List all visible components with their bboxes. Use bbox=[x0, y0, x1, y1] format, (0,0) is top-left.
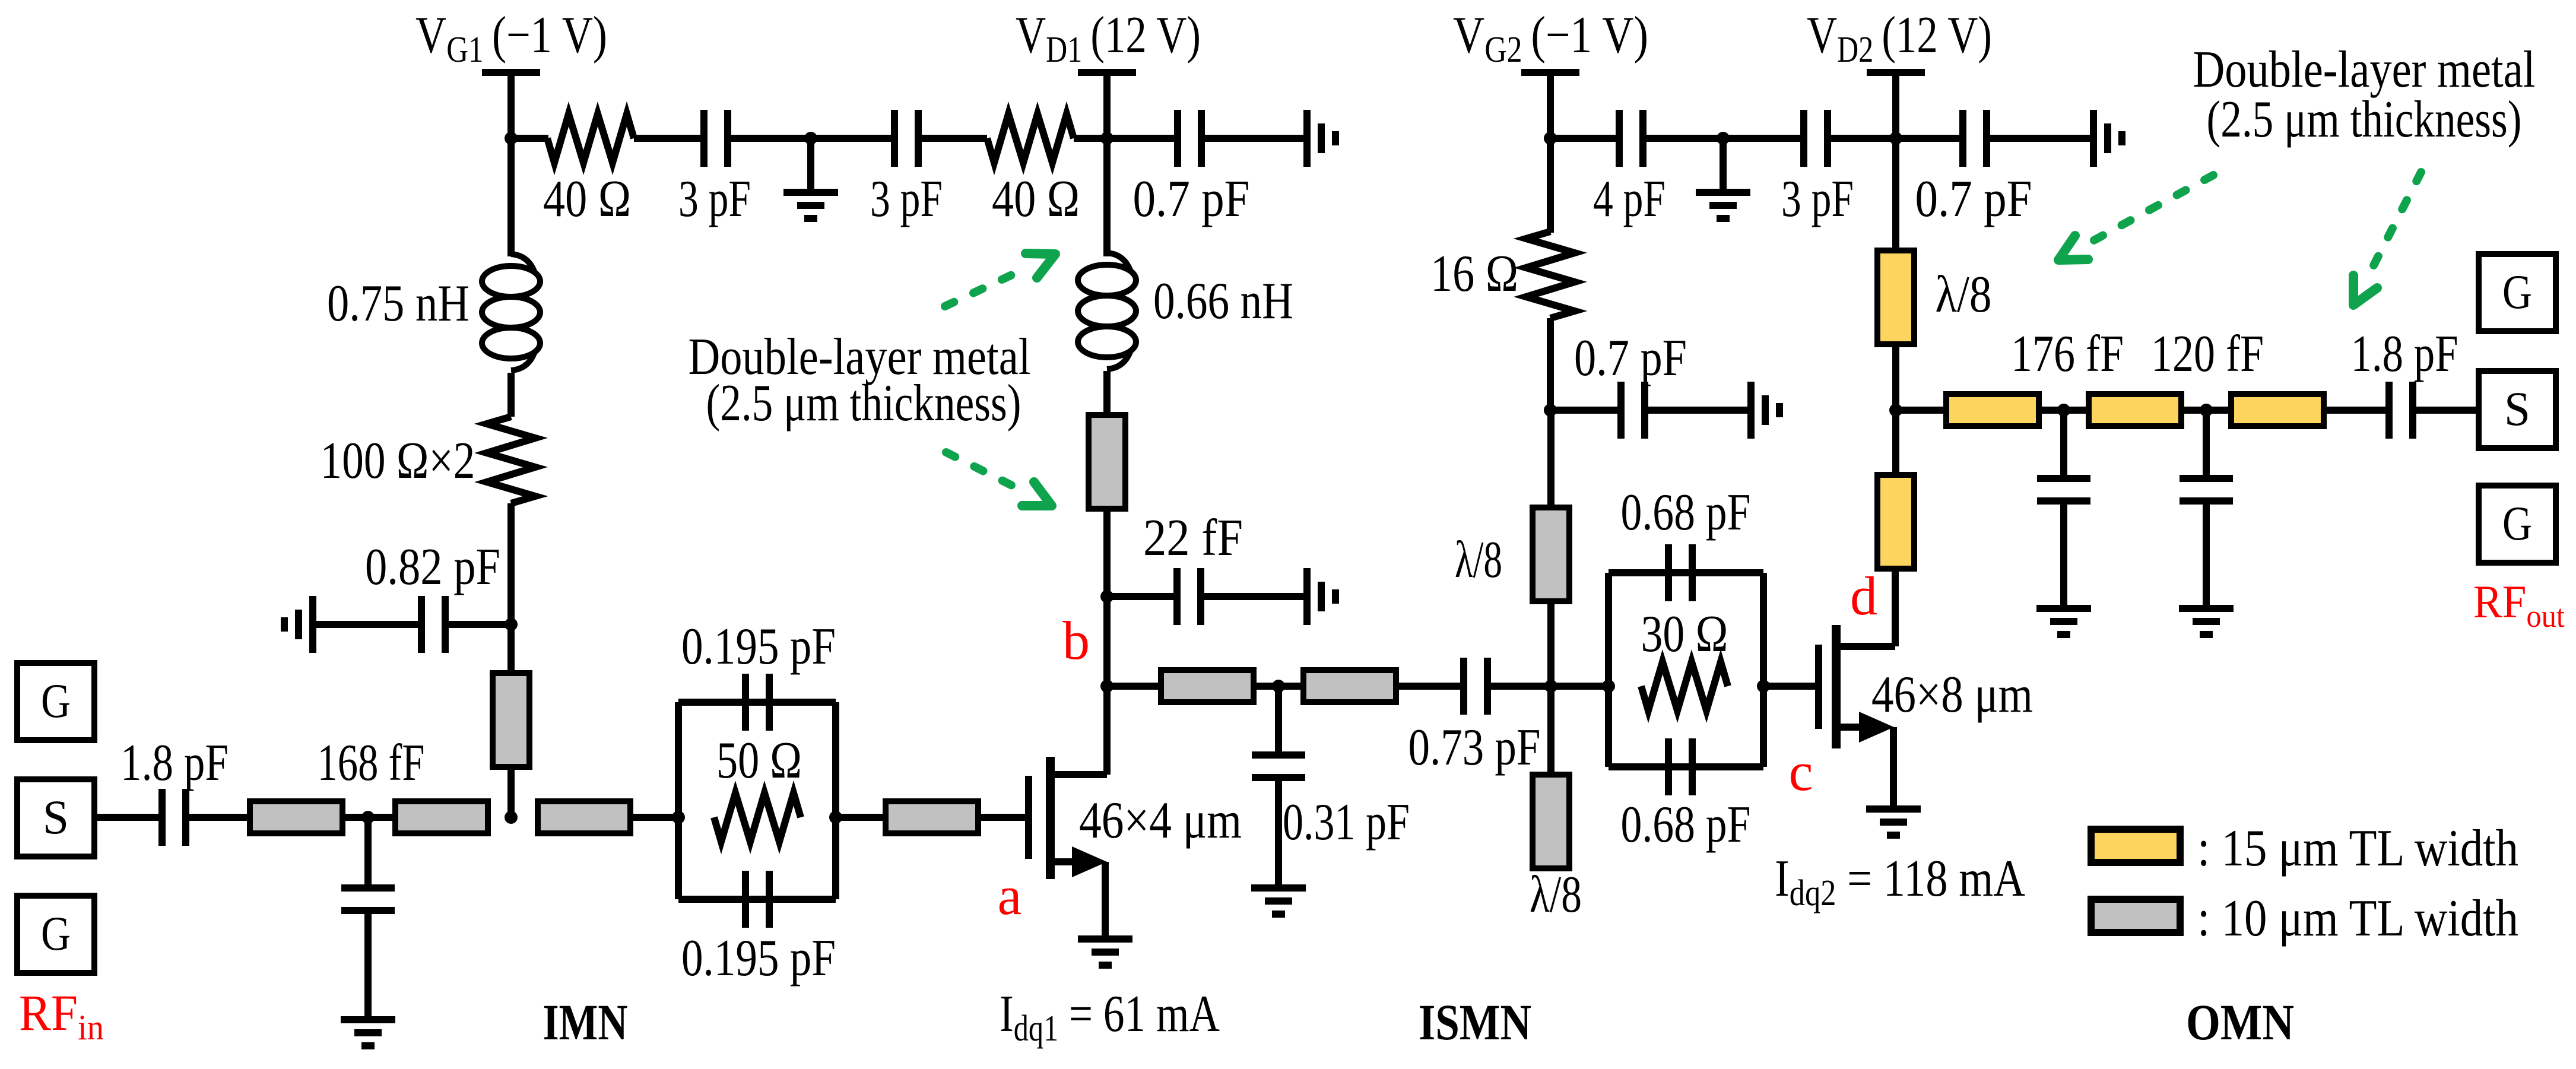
node 0.82 pF junction bbox=[505, 618, 518, 631]
ground (Q1 source) bbox=[1078, 939, 1132, 965]
svg-text:0.66 nH: 0.66 nH bbox=[1153, 272, 1293, 330]
svg-text:100 Ω×2: 100 Ω×2 bbox=[321, 432, 475, 490]
transmission line (15 um, VD2 lower) bbox=[1877, 475, 1914, 569]
pad G (output bottom) bbox=[2479, 486, 2556, 563]
node 120 fF junction bbox=[2200, 404, 2213, 417]
wire bbox=[2324, 407, 2389, 414]
RF short termination (22 fF) bbox=[1307, 568, 1335, 625]
transmission line TL (input 2) bbox=[395, 801, 488, 833]
wire bbox=[1547, 410, 1555, 509]
svg-text:: 15 μm TL width: : 15 μm TL width bbox=[2197, 820, 2518, 877]
wire VD2 rail bbox=[1892, 138, 1899, 250]
wire RC2 left side bbox=[1605, 573, 1612, 767]
svg-text:λ/8: λ/8 bbox=[1936, 266, 1992, 323]
inductor 0.75 nH bbox=[482, 254, 540, 370]
wire RC2 top bbox=[1609, 569, 1763, 576]
wire bbox=[507, 767, 515, 817]
wire bbox=[1547, 601, 1555, 686]
RF short termination (VD1 bypass) bbox=[1307, 110, 1335, 167]
capacitor 0.68 pF (top) bbox=[1668, 544, 1692, 601]
capacitor 22 fF bbox=[1177, 568, 1201, 625]
wire shunt bbox=[2203, 410, 2210, 475]
wire bbox=[1547, 686, 1555, 775]
wire bbox=[1550, 135, 1619, 142]
ground (120 fF) bbox=[2179, 608, 2234, 635]
svg-text:0.195 pF: 0.195 pF bbox=[681, 930, 836, 987]
wire bbox=[2181, 407, 2231, 414]
transistor Q1 (46x4 um FET) bbox=[1029, 757, 1107, 937]
svg-text:0.68 pF: 0.68 pF bbox=[1621, 796, 1751, 854]
transistor Q2 (46x8 um FET) bbox=[1819, 625, 1895, 807]
wire RC block left side bbox=[675, 702, 682, 899]
wire bbox=[1892, 410, 1899, 475]
wire bbox=[1103, 509, 1111, 597]
svg-text:0.195 pF: 0.195 pF bbox=[681, 618, 836, 675]
wire bbox=[186, 814, 250, 821]
svg-text:16 Ω: 16 Ω bbox=[1430, 245, 1518, 303]
wire RC block right side bbox=[832, 702, 839, 899]
node VG1 rail top bbox=[505, 132, 518, 145]
wire bbox=[1103, 597, 1111, 686]
capacitor 0.73 pF bbox=[1464, 658, 1487, 715]
node bias junction 1 bbox=[804, 132, 817, 145]
svg-text:λ/8: λ/8 bbox=[1530, 866, 1582, 924]
wire bbox=[728, 135, 894, 142]
capacitor 0.31 pF (shunt) bbox=[1252, 755, 1305, 778]
wire shunt bbox=[1275, 686, 1282, 755]
capacitor 0.195 pF (top) bbox=[745, 674, 769, 731]
wire bbox=[1107, 135, 1178, 142]
svg-text:d: d bbox=[1850, 566, 1877, 626]
ground (176 fF) bbox=[2036, 608, 2091, 635]
svg-text:G: G bbox=[41, 674, 71, 728]
svg-text:VG2 (−1 V): VG2 (−1 V) bbox=[1453, 7, 1648, 70]
transmission line (10 um, IMN shunt) bbox=[493, 673, 529, 767]
wire bbox=[1487, 683, 1551, 690]
capacitor 0.68 pF (bottom) bbox=[1668, 738, 1692, 795]
power supply bar VD2 bbox=[1867, 69, 1925, 76]
node b junction bbox=[1100, 680, 1113, 693]
wire ground stub bbox=[807, 138, 814, 189]
svg-text:176 fF: 176 fF bbox=[2011, 325, 2124, 383]
svg-text:S: S bbox=[2504, 382, 2530, 436]
wire bbox=[364, 911, 372, 1019]
resistor 16 &#937; bbox=[1526, 231, 1575, 318]
wire bbox=[1896, 135, 1963, 142]
capacitor 3 pF (second stage) bbox=[1804, 110, 1828, 167]
wire VD2 feed bbox=[1892, 76, 1899, 138]
transmission line TL (ISMN 2) bbox=[1303, 670, 1396, 702]
svg-text:46×8 μm: 46×8 μm bbox=[1871, 666, 2033, 724]
transmission line TL (to Q1 gate) bbox=[886, 801, 978, 833]
wire bbox=[1074, 135, 1107, 142]
wire bbox=[1201, 135, 1303, 142]
svg-text:1.8 pF: 1.8 pF bbox=[120, 734, 229, 792]
wire VG2 feed bbox=[1547, 76, 1554, 138]
svg-text:G: G bbox=[2502, 265, 2532, 319]
wire VG2 rail upper bbox=[1547, 138, 1554, 233]
wire VG1 feed bbox=[507, 76, 515, 138]
wire bbox=[1892, 344, 1899, 410]
wire ground stub bbox=[1720, 138, 1727, 189]
capacitor 0.7 pF (VD2 bypass) bbox=[1963, 110, 1987, 167]
svg-text:a: a bbox=[998, 865, 1022, 926]
svg-text:40 Ω: 40 Ω bbox=[543, 170, 631, 228]
svg-text:3 pF: 3 pF bbox=[678, 170, 751, 228]
wire bbox=[2203, 501, 2210, 607]
pad G (output top) bbox=[2479, 254, 2556, 331]
capacitor 168 fF (shunt) bbox=[341, 888, 395, 911]
node 22 fF junction bbox=[1100, 590, 1113, 603]
wire bbox=[1828, 135, 1896, 142]
capacitor 176 fF (shunt) bbox=[2037, 478, 2090, 501]
wire bbox=[1275, 778, 1282, 887]
capacitor 4 pF bbox=[1619, 110, 1643, 167]
wire bbox=[342, 814, 395, 821]
transmission line (15 um, OMN 2) bbox=[2089, 394, 2181, 426]
ground (168 fF) bbox=[341, 1020, 395, 1046]
svg-text:: 10 μm TL width: : 10 μm TL width bbox=[2197, 890, 2518, 947]
svg-text:4 pF: 4 pF bbox=[1593, 170, 1665, 228]
transmission line TL (input 1) bbox=[250, 801, 342, 833]
node VG1 rail / signal row bbox=[505, 811, 518, 824]
wire bbox=[1896, 407, 1946, 414]
node RC block 2 right bbox=[1757, 680, 1770, 693]
node ISMN cross bbox=[1544, 680, 1557, 693]
wire bbox=[94, 814, 162, 821]
annotation arrow to VD1 TL bbox=[946, 452, 1052, 506]
wire bbox=[1107, 593, 1177, 600]
transmission line lambda/8 (upper stub) bbox=[1533, 507, 1569, 601]
svg-text:λ/8: λ/8 bbox=[1455, 531, 1502, 589]
wire VG2 rail bbox=[1547, 318, 1554, 410]
wire RC2 bottom bbox=[1609, 763, 1763, 770]
resistor 40 &#937; (VG1 branch) bbox=[547, 114, 634, 163]
svg-text:0.7 pF: 0.7 pF bbox=[1915, 170, 2032, 228]
node 168 fF junction bbox=[361, 811, 375, 824]
wire bbox=[1645, 407, 1747, 414]
node 176 fF junction bbox=[2057, 404, 2070, 417]
capacitor 1.8 pF (output) bbox=[2389, 382, 2413, 439]
ground (Q2 source) bbox=[1866, 809, 1921, 835]
wire bbox=[2039, 407, 2089, 414]
inductor 0.66 nH bbox=[1078, 253, 1136, 369]
svg-text:0.75 nH: 0.75 nH bbox=[327, 275, 469, 332]
svg-text:IMN: IMN bbox=[543, 994, 628, 1051]
transmission line lambda/8 (15 um, VD2 upper) bbox=[1877, 250, 1914, 344]
wire bbox=[1551, 683, 1609, 690]
svg-text:0.68 pF: 0.68 pF bbox=[1621, 484, 1751, 541]
svg-text:46×4 μm: 46×4 μm bbox=[1079, 792, 1242, 849]
capacitor 0.195 pF (bottom) bbox=[745, 871, 769, 928]
svg-text:G: G bbox=[2502, 496, 2532, 550]
pad S (output) bbox=[2479, 371, 2556, 448]
svg-text:0.73 pF: 0.73 pF bbox=[1408, 719, 1541, 776]
capacitor 1.8 pF (input) bbox=[162, 789, 186, 846]
ground (0.31 pF) bbox=[1251, 888, 1306, 914]
svg-text:0.7 pF: 0.7 pF bbox=[1574, 329, 1687, 387]
ground (bias row 1) bbox=[783, 192, 838, 218]
transmission line (10 um, VD1 feed) bbox=[1089, 415, 1125, 509]
wire bbox=[1763, 683, 1815, 690]
wire Q2 drain rail bbox=[1892, 569, 1899, 646]
svg-text:VD1 (12 V): VD1 (12 V) bbox=[1016, 7, 1201, 70]
capacitor 0.7 pF (VD1 bypass) bbox=[1178, 110, 1201, 167]
svg-text:OMN: OMN bbox=[2186, 994, 2294, 1051]
svg-text:Double-layer metal: Double-layer metal bbox=[2193, 41, 2536, 99]
capacitor 3 pF (first) bbox=[704, 110, 728, 167]
wire shunt bbox=[2060, 410, 2067, 475]
pad G (input top) bbox=[17, 663, 94, 740]
svg-text:0.7 pF: 0.7 pF bbox=[1133, 170, 1250, 228]
wire bbox=[1987, 135, 2093, 142]
svg-text:40 Ω: 40 Ω bbox=[992, 170, 1080, 228]
pad G (input bottom) bbox=[17, 896, 94, 973]
wire shunt bbox=[364, 817, 372, 888]
wire bbox=[978, 814, 1025, 821]
resistor 40 &#937; (VD1 branch) bbox=[987, 114, 1074, 163]
node VG2 0.7 pF junction bbox=[1544, 404, 1557, 417]
annotation arrow to VD2 TL bbox=[2058, 175, 2213, 260]
svg-text:3 pF: 3 pF bbox=[870, 170, 943, 228]
wire bbox=[2060, 501, 2067, 607]
svg-text:(2.5 μm thickness): (2.5 μm thickness) bbox=[706, 375, 1021, 432]
node VG2 rail top bbox=[1544, 132, 1557, 145]
svg-text:1.8 pF: 1.8 pF bbox=[2351, 325, 2458, 383]
node RC block 2 left bbox=[1602, 680, 1615, 693]
svg-text:c: c bbox=[1789, 741, 1813, 802]
wire VG1 rail bbox=[507, 138, 515, 256]
svg-text:VD2 (12 V): VD2 (12 V) bbox=[1807, 7, 1992, 70]
wire bbox=[630, 814, 678, 821]
wire bbox=[1107, 683, 1161, 690]
wire bbox=[1103, 371, 1111, 415]
svg-text:30 Ω: 30 Ω bbox=[1641, 605, 1728, 663]
svg-text:ISMN: ISMN bbox=[1419, 994, 1531, 1051]
node VD2 rail top bbox=[1889, 132, 1902, 145]
wire bbox=[836, 814, 886, 821]
transmission line (15 um, OMN 1) bbox=[1946, 394, 2039, 426]
pad S (input) bbox=[17, 779, 94, 857]
wire bbox=[1201, 593, 1303, 600]
svg-text:VG1 (−1 V): VG1 (−1 V) bbox=[415, 7, 607, 70]
wire bbox=[1103, 138, 1111, 256]
node RC block right bbox=[829, 811, 842, 824]
power supply bar VG2 bbox=[1521, 69, 1579, 76]
wire bbox=[316, 621, 418, 628]
node RC block left bbox=[672, 811, 685, 824]
resistor 50 &#937; bbox=[714, 793, 801, 842]
transmission line lambda/8 (lower stub) bbox=[1533, 775, 1569, 868]
svg-text:168 fF: 168 fF bbox=[318, 734, 425, 792]
wire bbox=[1550, 407, 1621, 414]
RF short termination (0.82 pF) bbox=[284, 596, 313, 653]
transmission line TL (ISMN 1) bbox=[1161, 670, 1254, 702]
legend swatch 10 um TL bbox=[2091, 899, 2180, 932]
wire RC block top bbox=[678, 699, 836, 706]
svg-text:0.31 pF: 0.31 pF bbox=[1283, 794, 1410, 851]
wire bbox=[1254, 683, 1303, 690]
wire bbox=[507, 373, 515, 417]
transmission line (15 um, OMN 3) bbox=[2231, 394, 2324, 426]
wire bbox=[634, 135, 704, 142]
svg-text:3 pF: 3 pF bbox=[1781, 170, 1854, 228]
wire bbox=[2413, 407, 2479, 414]
svg-text:0.82 pF: 0.82 pF bbox=[365, 538, 500, 596]
wire VD1 feed bbox=[1103, 76, 1111, 138]
svg-text:G: G bbox=[41, 906, 71, 960]
resistor 30 &#937; bbox=[1641, 662, 1728, 710]
wire bbox=[449, 621, 511, 628]
svg-text:b: b bbox=[1062, 610, 1090, 671]
svg-text:22 fF: 22 fF bbox=[1143, 509, 1243, 567]
svg-text:120 fF: 120 fF bbox=[2151, 325, 2264, 383]
node 0.31 pF junction bbox=[1272, 680, 1285, 693]
capacitor 3 pF (second) bbox=[894, 110, 918, 167]
wire bbox=[507, 503, 515, 673]
annotation arrow to 0.66 nH inductor bbox=[945, 253, 1055, 306]
power supply bar VG1 bbox=[482, 69, 540, 76]
capacitor 0.82 pF bbox=[421, 596, 445, 653]
wire bbox=[1396, 683, 1464, 690]
wire RC2 right side bbox=[1760, 573, 1767, 767]
svg-text:50 Ω: 50 Ω bbox=[716, 732, 802, 789]
wire bbox=[1643, 135, 1804, 142]
capacitor 120 fF (shunt) bbox=[2180, 478, 2233, 501]
svg-text:S: S bbox=[43, 790, 69, 844]
capacitor 0.7 pF (VG2) bbox=[1621, 382, 1645, 439]
svg-text:(2.5 μm thickness): (2.5 μm thickness) bbox=[2207, 91, 2522, 148]
transmission line TL (input 3) bbox=[538, 801, 630, 833]
legend swatch 15 um TL bbox=[2091, 829, 2180, 862]
wire RC block bottom bbox=[678, 896, 836, 903]
node VD1 rail top bbox=[1100, 132, 1113, 145]
resistor 100 &#937;&#215;2 bbox=[487, 417, 535, 503]
node d rail junction bbox=[1889, 404, 1902, 417]
annotation arrow to OMN TL bbox=[2353, 172, 2421, 305]
node bias junction 2 bbox=[1717, 132, 1730, 145]
power supply bar VD1 bbox=[1078, 69, 1136, 76]
RF short termination (VG2 0.7 pF) bbox=[1751, 382, 1779, 439]
wire bbox=[918, 135, 987, 142]
wire bbox=[511, 135, 548, 142]
ground (bias row 2) bbox=[1696, 192, 1750, 218]
RF short termination (VD2 bypass) bbox=[2093, 110, 2122, 167]
wire Q1 drain rail bbox=[1103, 686, 1111, 775]
